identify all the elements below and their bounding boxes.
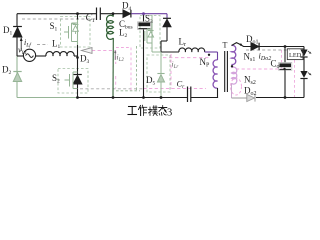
svg-text:3: 3: [167, 107, 172, 118]
svg-text:T: T: [223, 41, 228, 50]
svg-text:LED: LED: [289, 52, 302, 59]
